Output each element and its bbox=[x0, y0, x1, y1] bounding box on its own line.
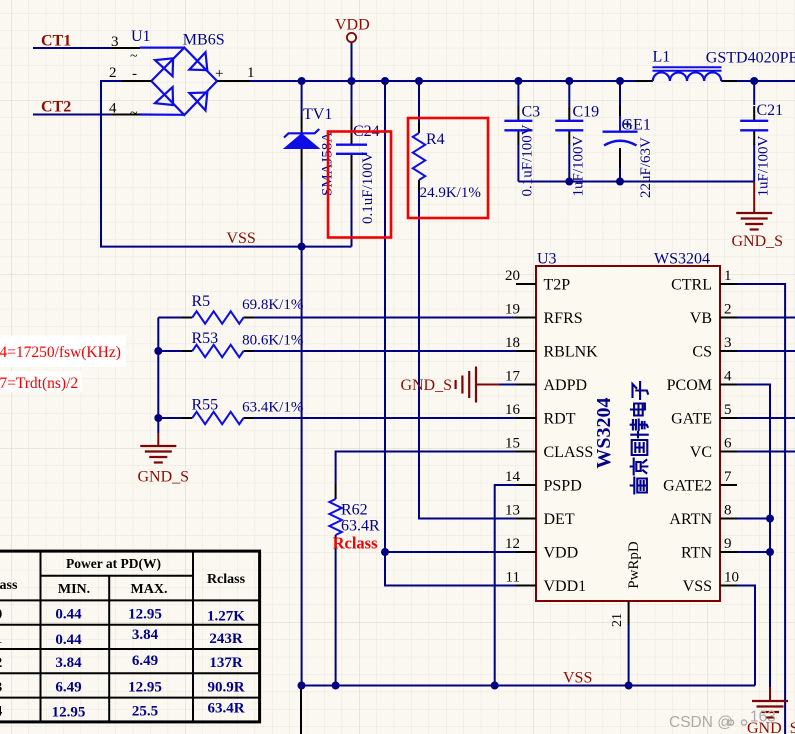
svg-text:GND_S: GND_S bbox=[732, 233, 784, 250]
svg-text:5: 5 bbox=[724, 402, 732, 418]
svg-text:Rclass: Rclass bbox=[207, 572, 246, 587]
svg-text:CTRL: CTRL bbox=[671, 277, 712, 294]
svg-text:25.5: 25.5 bbox=[132, 704, 158, 720]
wire pin2 to VSS corner bbox=[101, 81, 352, 247]
pin 1 stub bbox=[217, 80, 250, 82]
svg-text:243R: 243R bbox=[209, 631, 243, 647]
capacitor C3 bbox=[504, 106, 532, 145]
wire C21 branch bbox=[753, 81, 755, 105]
svg-text:6.49: 6.49 bbox=[132, 653, 158, 669]
svg-text:0.44: 0.44 bbox=[55, 632, 82, 648]
svg-text:12: 12 bbox=[505, 536, 520, 552]
svg-text:RDT: RDT bbox=[544, 411, 576, 428]
wire VDD port stem bbox=[351, 42, 353, 81]
svg-text:3.84: 3.84 bbox=[132, 627, 159, 643]
resistor R5 bbox=[182, 311, 254, 323]
svg-text:C21: C21 bbox=[757, 102, 784, 119]
pin 12 VDD bbox=[505, 536, 578, 562]
wire VSS pin10 down bbox=[737, 586, 755, 686]
svg-text:1uF/100V: 1uF/100V bbox=[571, 135, 587, 196]
svg-text:63.4R: 63.4R bbox=[341, 518, 380, 535]
formula background boxes bbox=[0, 336, 126, 368]
capacitor C24 bbox=[336, 116, 367, 180]
bridge rectifier U1 MB6S bbox=[140, 48, 217, 115]
pin 15 CLASS bbox=[505, 436, 593, 462]
svg-text:GATE2: GATE2 bbox=[663, 478, 712, 495]
svg-text:VSS: VSS bbox=[563, 670, 592, 687]
svg-text:1: 1 bbox=[247, 65, 255, 81]
svg-text:20: 20 bbox=[505, 268, 520, 284]
svg-text:80.6K/1%: 80.6K/1% bbox=[242, 333, 303, 349]
svg-text:6.49: 6.49 bbox=[55, 679, 81, 695]
svg-text:MIN.: MIN. bbox=[58, 582, 90, 597]
junction dot VSS top bbox=[298, 243, 306, 251]
svg-text:21: 21 bbox=[610, 613, 625, 627]
svg-text:PSPD: PSPD bbox=[544, 478, 582, 495]
wire below VSS rail bbox=[300, 687, 302, 734]
svg-text:VDD: VDD bbox=[544, 545, 579, 562]
svg-text:RBLNK: RBLNK bbox=[544, 344, 599, 361]
junction dots cap bottom rail bbox=[565, 178, 573, 186]
svg-text:63.4K/1%: 63.4K/1% bbox=[242, 400, 303, 416]
svg-text:8: 8 bbox=[724, 503, 732, 519]
pin 8 ARTN bbox=[669, 503, 737, 529]
svg-text:1.27K: 1.27K bbox=[207, 609, 245, 625]
svg-text:PCOM: PCOM bbox=[667, 377, 712, 394]
wire VSS bottom rail bbox=[302, 685, 756, 687]
transistor-suppressor TV1 SMAJ58A bbox=[284, 116, 319, 181]
wire CS to right edge bbox=[737, 350, 795, 352]
watermark bbox=[669, 709, 776, 732]
wire R53 row to RBLNK bbox=[158, 350, 182, 352]
junction dots VSS bottom rail bbox=[298, 682, 306, 690]
wire C24 branch bbox=[351, 81, 353, 116]
pin 11 VDD1 bbox=[506, 570, 587, 596]
junction dot VDD pin12 bbox=[381, 548, 389, 556]
wire CTRL to right edge bbox=[737, 284, 785, 734]
svg-text:R7=Trdt(ns)/2: R7=Trdt(ns)/2 bbox=[0, 375, 78, 392]
pin 10 VSS bbox=[683, 570, 739, 596]
wire RTN stub right bbox=[737, 551, 770, 553]
resistor R55 bbox=[182, 412, 254, 424]
wire GE1 branch bbox=[619, 81, 621, 106]
svg-text:12.95: 12.95 bbox=[52, 705, 86, 721]
svg-text:CSDN @: CSDN @ bbox=[669, 714, 733, 731]
svg-text:R4: R4 bbox=[426, 131, 445, 148]
svg-text:CLASS: CLASS bbox=[544, 444, 594, 461]
svg-text:11: 11 bbox=[506, 570, 520, 586]
svg-text:10: 10 bbox=[724, 570, 739, 586]
wire TV1 branch bbox=[301, 81, 303, 116]
svg-text:69.8K/1%: 69.8K/1% bbox=[242, 297, 303, 313]
wire GATE to right edge bbox=[737, 417, 795, 419]
wire ARTN stub right bbox=[737, 518, 770, 520]
svg-text:PwRpD: PwRpD bbox=[626, 541, 642, 589]
svg-text:U1: U1 bbox=[131, 28, 151, 45]
pin 9 RTN bbox=[681, 536, 737, 562]
ground GND_S bottom right bbox=[747, 687, 795, 734]
svg-text:1uF/100V: 1uF/100V bbox=[756, 135, 772, 196]
wire VDD rail bbox=[250, 80, 636, 82]
wire R55 row to RDT bbox=[158, 417, 182, 419]
svg-text:GE1: GE1 bbox=[622, 117, 651, 134]
pin 6 VC bbox=[690, 436, 737, 462]
svg-text:Power at PD(W): Power at PD(W) bbox=[66, 556, 161, 571]
svg-text:3: 3 bbox=[724, 335, 732, 351]
resistor R53 bbox=[182, 345, 254, 357]
junction dots right vertical bbox=[766, 515, 774, 523]
wire VC to right edge bbox=[737, 451, 795, 453]
svg-text:15: 15 bbox=[505, 436, 520, 452]
wire capacitor bottom rail bbox=[518, 181, 754, 183]
wire R4 to DET bbox=[418, 81, 420, 123]
svg-text:2: 2 bbox=[0, 655, 2, 671]
svg-text:R53: R53 bbox=[192, 330, 219, 347]
table Power at PD bbox=[0, 551, 260, 722]
pin 1 CTRL bbox=[671, 268, 737, 294]
svg-text:VDD1: VDD1 bbox=[544, 578, 587, 595]
svg-text:0.1uF/100V: 0.1uF/100V bbox=[520, 124, 536, 196]
pin 14 PSPD bbox=[505, 469, 582, 495]
svg-text:ADPD: ADPD bbox=[544, 377, 588, 394]
svg-text:L1: L1 bbox=[653, 49, 671, 66]
resistor R4 bbox=[413, 123, 425, 190]
wire PSPD down to VSS bbox=[495, 485, 516, 686]
pin 7 GATE2 bbox=[663, 469, 737, 495]
svg-text:0: 0 bbox=[0, 607, 2, 623]
svg-text:3: 3 bbox=[0, 679, 2, 695]
svg-text:R5: R5 bbox=[192, 293, 211, 310]
svg-text:Rclass: Rclass bbox=[333, 534, 378, 553]
svg-text:+: + bbox=[215, 66, 223, 82]
wire pin21 to VSS bbox=[628, 625, 630, 686]
capacitor GE1 polarized bbox=[603, 106, 638, 168]
ground GND_S below resistors bbox=[138, 433, 190, 486]
pin 3 CS bbox=[692, 335, 737, 361]
pin 4 PCOM bbox=[667, 369, 737, 395]
op-amp U3 WS3204 IC body bbox=[536, 266, 720, 601]
svg-text:VB: VB bbox=[690, 310, 712, 327]
svg-text:2: 2 bbox=[724, 302, 732, 318]
svg-text:R62: R62 bbox=[341, 502, 368, 519]
svg-text:18: 18 bbox=[505, 335, 520, 351]
svg-text:MB6S: MB6S bbox=[183, 32, 225, 49]
svg-text:90.9R: 90.9R bbox=[207, 679, 244, 695]
pin 5 GATE bbox=[671, 402, 737, 428]
svg-text:2: 2 bbox=[109, 65, 117, 81]
svg-text:CT1: CT1 bbox=[41, 33, 71, 50]
wire VDD to pin12/pin11 bbox=[385, 81, 516, 586]
svg-text:12.95: 12.95 bbox=[128, 607, 162, 623]
svg-text:VDD: VDD bbox=[335, 17, 370, 34]
svg-text:VSS: VSS bbox=[683, 578, 712, 595]
wire R5 row to RFRS bbox=[158, 317, 182, 319]
svg-text:GND_S: GND_S bbox=[400, 377, 452, 394]
svg-text:CS: CS bbox=[692, 344, 712, 361]
svg-text:DET: DET bbox=[544, 511, 575, 528]
red highlight box R4 bbox=[408, 118, 488, 218]
svg-text:RFRS: RFRS bbox=[544, 310, 583, 327]
svg-text:3: 3 bbox=[111, 34, 119, 50]
svg-text:ARTN: ARTN bbox=[669, 511, 712, 528]
svg-text:1: 1 bbox=[0, 631, 2, 647]
ground GND_S at ADPD pin17 bbox=[400, 367, 499, 403]
wire C3 branch bbox=[517, 81, 519, 106]
svg-text:CT2: CT2 bbox=[41, 99, 71, 116]
svg-text:6: 6 bbox=[724, 436, 732, 452]
svg-text:163: 163 bbox=[750, 709, 776, 726]
svg-text:C19: C19 bbox=[573, 104, 600, 121]
svg-text:TV1: TV1 bbox=[303, 106, 332, 123]
wire CT2 input bbox=[33, 114, 112, 116]
svg-text:17: 17 bbox=[505, 369, 521, 385]
svg-text:U3: U3 bbox=[537, 251, 557, 268]
pin 21 bbox=[610, 601, 629, 627]
wire CLASS to R62 bbox=[336, 452, 516, 485]
svg-text:~: ~ bbox=[130, 49, 138, 64]
svg-text:GATE: GATE bbox=[671, 411, 712, 428]
svg-text:9: 9 bbox=[724, 536, 732, 552]
junction dots top rail bbox=[298, 77, 306, 85]
svg-text:7: 7 bbox=[724, 469, 732, 485]
svg-text:14: 14 bbox=[505, 469, 521, 485]
U3 vertical text Nanjing Guobo Electronics bbox=[631, 382, 648, 494]
svg-text:-: - bbox=[132, 66, 137, 82]
svg-text:4: 4 bbox=[724, 369, 732, 385]
pin 2 VB bbox=[690, 302, 737, 328]
inductor L1 bbox=[636, 67, 738, 81]
pin 20 T2P bbox=[505, 268, 570, 294]
svg-text:MAX.: MAX. bbox=[131, 582, 168, 597]
wire resistor-divider vertical bbox=[157, 318, 159, 434]
svg-text:Class: Class bbox=[0, 578, 18, 593]
svg-text:19: 19 bbox=[505, 302, 520, 318]
wire PCOM down right bbox=[737, 385, 770, 688]
svg-text:VC: VC bbox=[690, 444, 712, 461]
pin 3 stub bbox=[112, 47, 140, 49]
capacitor C21 bbox=[740, 106, 768, 145]
pin 19 RFRS bbox=[505, 302, 583, 328]
svg-text:137R: 137R bbox=[209, 655, 243, 671]
svg-text:0.1uF/100V: 0.1uF/100V bbox=[360, 152, 376, 224]
svg-text:WS3204: WS3204 bbox=[654, 251, 710, 268]
svg-text:T2P: T2P bbox=[544, 277, 571, 294]
pin 13 DET bbox=[505, 503, 575, 529]
svg-text:~: ~ bbox=[130, 106, 138, 121]
power port VDD bbox=[335, 17, 370, 43]
wire ADPD to GND_S bbox=[499, 384, 516, 386]
svg-text:24.9K/1%: 24.9K/1% bbox=[420, 185, 481, 201]
svg-text:C3: C3 bbox=[522, 104, 541, 121]
wire CT1 input bbox=[33, 47, 112, 49]
svg-text:16: 16 bbox=[505, 402, 521, 418]
pin 4 stub bbox=[112, 114, 140, 116]
resistor R62 bbox=[329, 484, 341, 550]
red highlight box C24 bbox=[328, 132, 391, 238]
pin 2 stub bbox=[122, 80, 151, 82]
svg-text:1: 1 bbox=[724, 268, 732, 284]
wire C19 branch bbox=[568, 81, 570, 106]
svg-text:R4=17250/fsw(KHz): R4=17250/fsw(KHz) bbox=[0, 344, 121, 361]
svg-text:RTN: RTN bbox=[681, 545, 712, 562]
svg-text:VSS: VSS bbox=[226, 230, 255, 247]
svg-text:12.95: 12.95 bbox=[128, 679, 162, 695]
svg-text:WS3204: WS3204 bbox=[593, 397, 615, 468]
svg-text:GND_S: GND_S bbox=[138, 469, 190, 486]
capacitor C19 bbox=[555, 106, 583, 145]
pin 17 ADPD bbox=[505, 369, 587, 395]
svg-text:3.84: 3.84 bbox=[55, 655, 82, 671]
svg-text:4: 4 bbox=[109, 101, 117, 117]
junction dots divider bbox=[154, 347, 162, 355]
wire VB to right edge bbox=[737, 317, 795, 319]
svg-text:63.4R: 63.4R bbox=[207, 701, 244, 717]
svg-text:GSTD4020PE-: GSTD4020PE- bbox=[706, 50, 795, 67]
svg-text:R55: R55 bbox=[192, 397, 219, 414]
pin 18 RBLNK bbox=[505, 335, 598, 361]
svg-text:13: 13 bbox=[505, 503, 520, 519]
pin 16 RDT bbox=[505, 402, 576, 428]
ground GND_S below C21 bbox=[732, 182, 784, 251]
svg-text:22uF/63V: 22uF/63V bbox=[638, 137, 654, 198]
svg-text:0.44: 0.44 bbox=[55, 607, 82, 623]
